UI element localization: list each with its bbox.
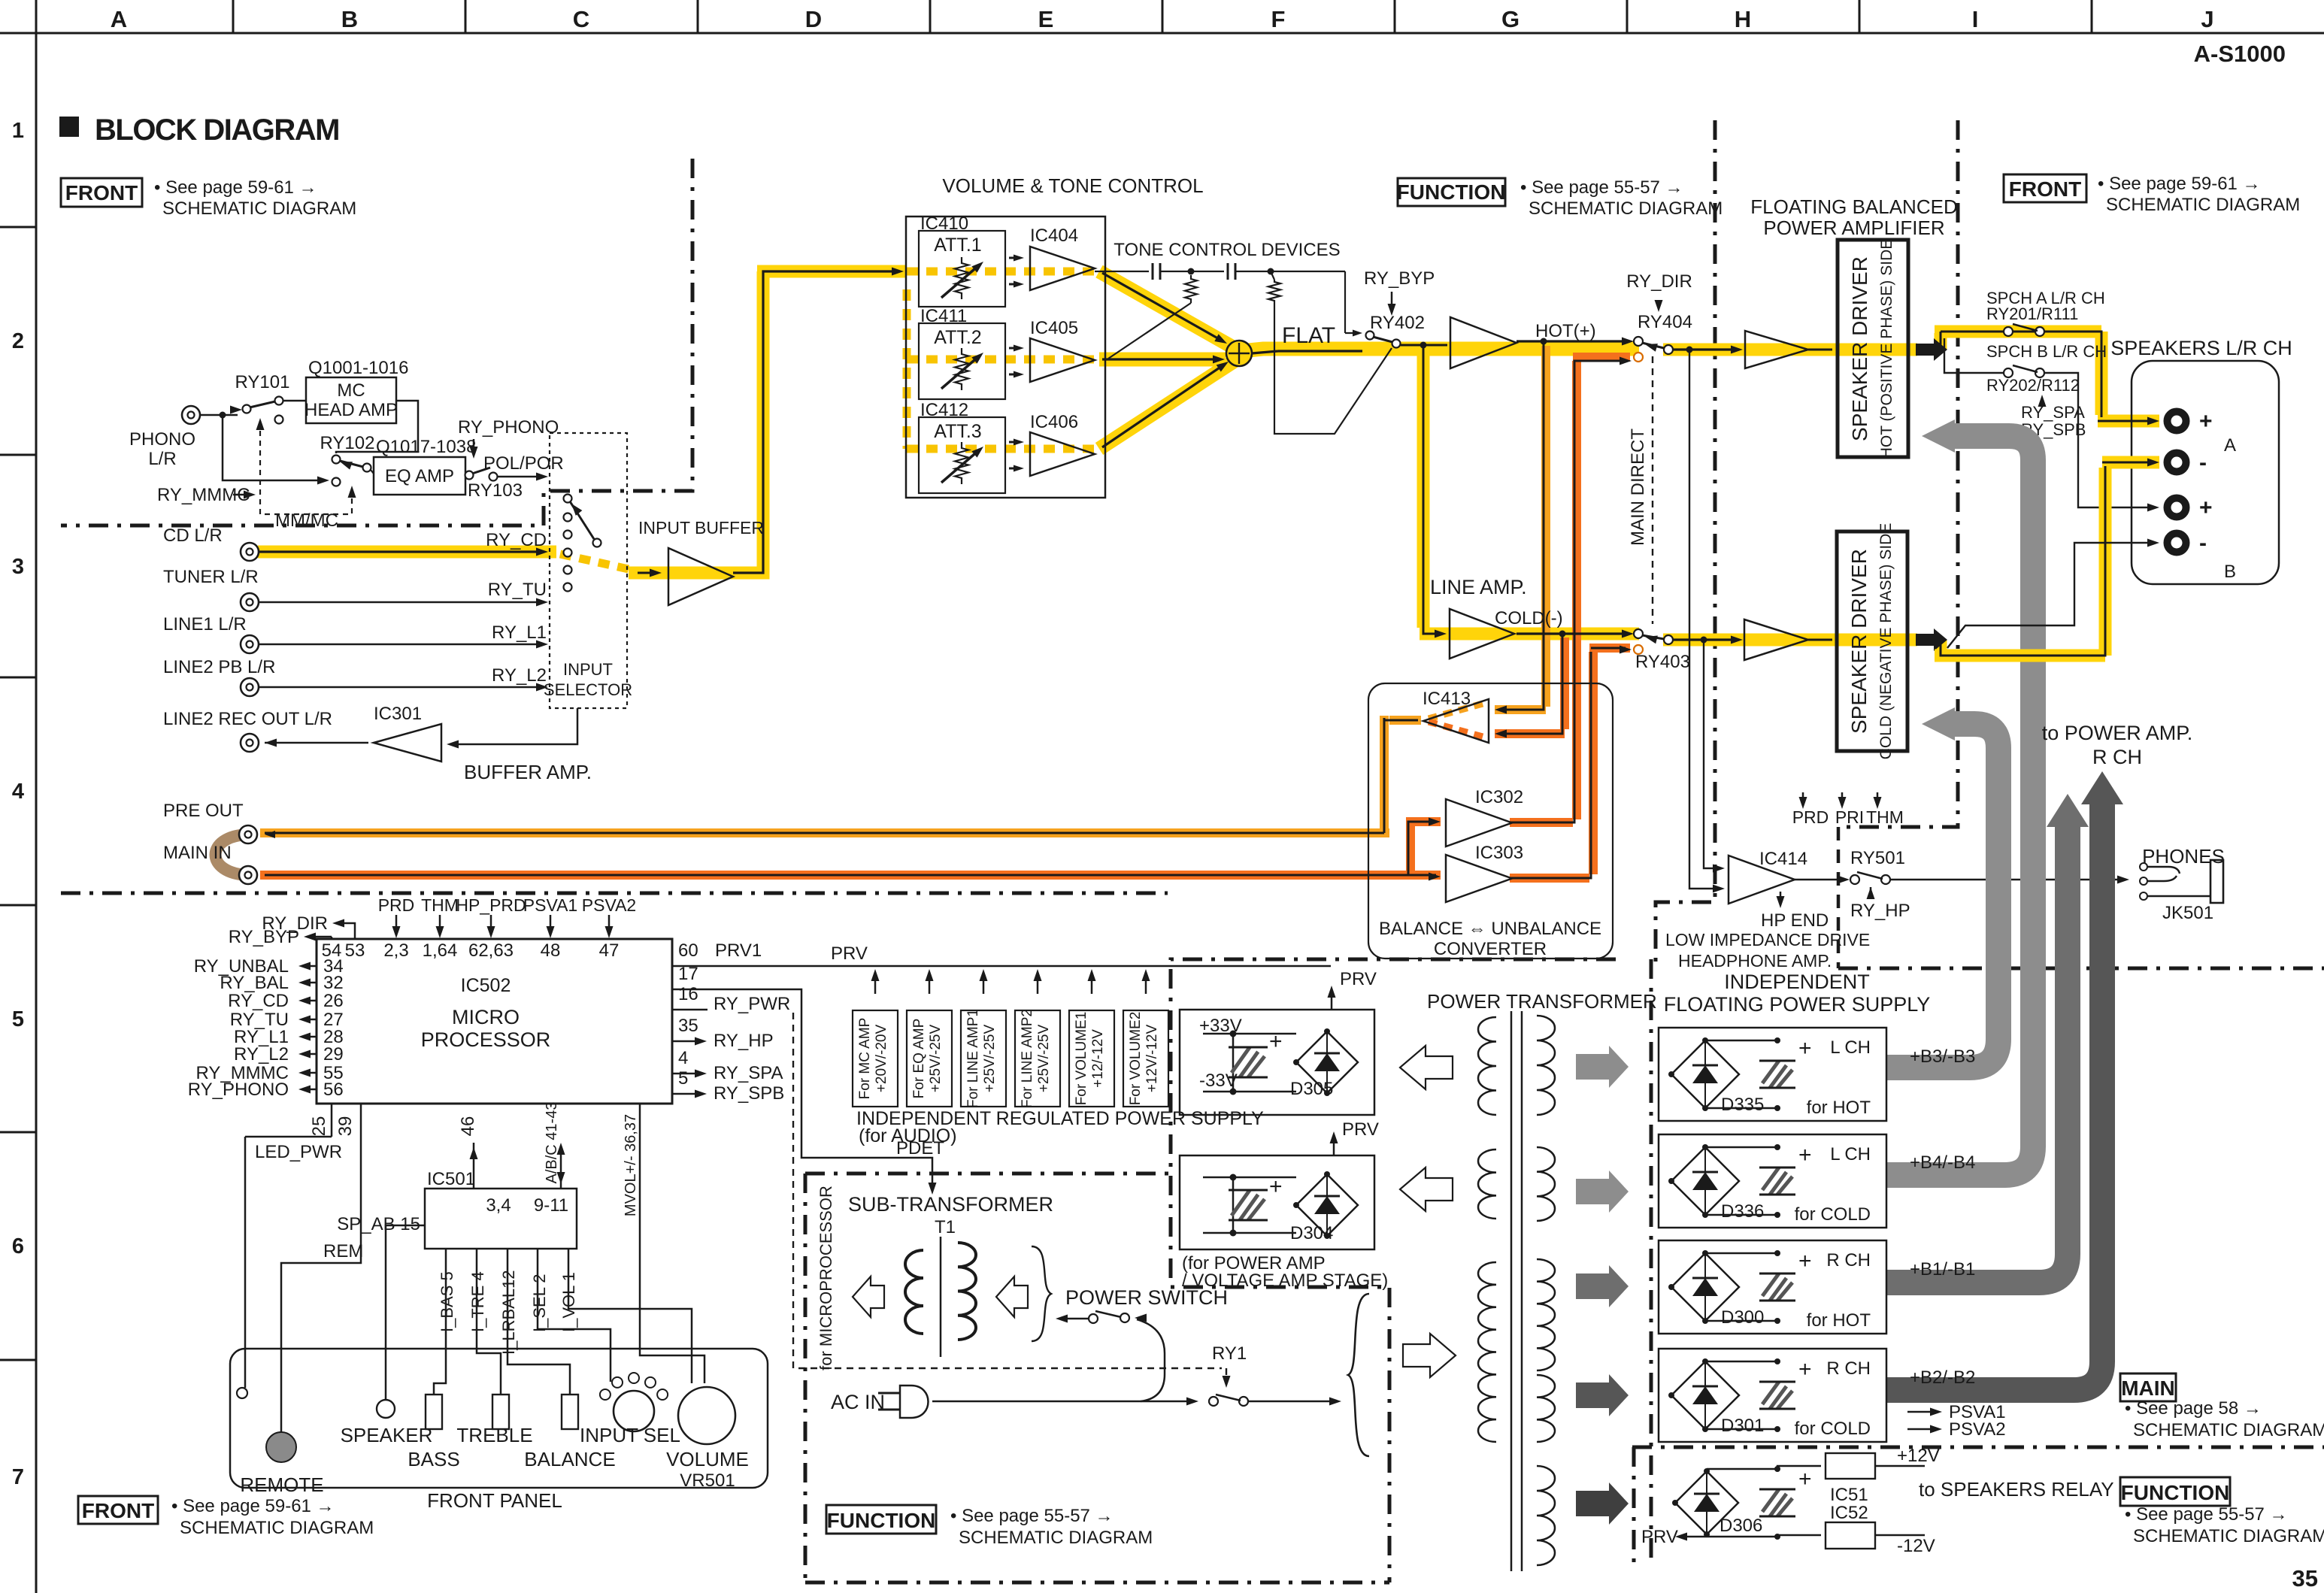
svg-text:for COLD: for COLD [1795,1419,1871,1439]
svg-text:• See page 55-57 →: • See page 55-57 → [2125,1504,2288,1525]
svg-text:-: - [2199,531,2207,556]
svg-text:1,64: 1,64 [423,940,458,961]
svg-text:For EQ AMP: For EQ AMP [911,1019,927,1099]
jack PHONO L/R [182,406,200,424]
svg-text:RY_BYP: RY_BYP [229,927,299,947]
svg-text:PRI: PRI [1835,807,1864,827]
svg-text:For VOLUME2: For VOLUME2 [1128,1012,1144,1106]
line A/B/C to IC501 double arrow [560,1147,562,1189]
svg-text:LINE2 REC OUT L/R: LINE2 REC OUT L/R [163,709,332,729]
svg-text:+: + [1798,1249,1812,1273]
svg-text:E: E [1038,6,1054,32]
svg-text:IC413: IC413 [1423,689,1471,709]
svg-text:47: 47 [599,940,620,961]
block INPUT SELECTOR dashed [550,433,627,708]
svg-text:VR501: VR501 [680,1470,735,1491]
treble slider [492,1395,509,1429]
black arrows into IC413 [1496,706,1507,713]
svg-text:SELECTOR: SELECTOR [544,680,632,699]
svg-text:THM: THM [421,895,459,915]
relay switch RY103 POL/POR [465,471,474,480]
svg-text:SPEAKERS L/R CH: SPEAKERS L/R CH [2110,337,2292,359]
svg-text:+: + [1798,1357,1812,1382]
svg-text:+20V/-20V: +20V/-20V [874,1025,889,1093]
svg-text:RY402: RY402 [1370,313,1425,333]
svg-text:PDET: PDET [896,1138,944,1158]
region boundary dash-dot bottom power supply [1171,959,1616,1582]
wire selector to IC301 to jack [451,708,577,744]
amp triangle input buffer [668,548,733,605]
svg-text:REM: REM [323,1241,363,1261]
svg-text:HEADPHONE AMP.: HEADPHONE AMP. [1678,951,1832,971]
svg-text:3: 3 [12,555,24,579]
black core spur to RY202 row [1944,338,2003,373]
black core COLD after driver [1517,632,1629,634]
svg-text:INPUT: INPUT [563,660,613,679]
sub transformer secondary coil [958,1243,976,1340]
svg-text:2,3: 2,3 [383,940,408,961]
svg-text:1: 1 [12,119,24,143]
svg-text:for MICROPROCESSOR: for MICROPROCESSOR [817,1186,835,1370]
svg-text:-: - [2199,450,2207,475]
svg-text:3,4: 3,4 [486,1195,511,1216]
svg-text:R CH: R CH [2092,746,2142,768]
svg-text:SCHEMATIC DIAGRAM: SCHEMATIC DIAGRAM [959,1528,1153,1548]
jack LINE2 PB L/R [241,678,259,696]
yellow signal path CD input to selector [258,546,556,559]
svg-text:• See page 59-61 →: • See page 59-61 → [171,1496,335,1516]
amp triangle line amp HOT [1450,317,1517,368]
MVOL line to volume [640,1104,704,1383]
svg-text:FUNCTION: FUNCTION [1397,180,1506,204]
black core to HOT line amp and COLD branch [1401,344,1447,347]
svg-text:CONVERTER: CONVERTER [1434,939,1547,959]
orange dotted inside IC413 [1429,704,1483,719]
svg-text:IC502: IC502 [461,975,511,996]
svg-text:SCHEMATIC DIAGRAM: SCHEMATIC DIAGRAM [2133,1526,2324,1546]
svg-text:for HOT: for HOT [1807,1098,1871,1118]
svg-text:FUNCTION: FUNCTION [2121,1481,2230,1504]
svg-text:SCHEMATIC DIAGRAM: SCHEMATIC DIAGRAM [2106,195,2300,215]
sub transformer core [940,1237,942,1357]
svg-text:I_TRE 4: I_TRE 4 [468,1271,487,1332]
amp triangle IC301 buffer amp [374,724,441,762]
svg-text:ATT.2: ATT.2 [934,327,981,348]
speakers panel box [2132,361,2279,584]
svg-text:RY_L2: RY_L2 [492,665,547,686]
svg-text:+: + [2199,495,2213,520]
svg-text:PRE OUT: PRE OUT [163,801,244,821]
volume knob VR501 [678,1387,735,1444]
svg-text:RY_TU: RY_TU [488,580,547,600]
svg-text:RY102: RY102 [320,433,375,453]
tap wires down to IC414 [1689,350,1720,889]
jack PRE OUT [239,825,257,843]
svg-text:Q1001-1016: Q1001-1016 [308,358,408,378]
svg-text:RY_PWR: RY_PWR [714,994,790,1014]
svg-text:+: + [1798,1036,1812,1061]
yellow path HOT line amp to speaker driver [1663,333,1941,350]
svg-text:6: 6 [12,1234,24,1258]
gray band +B1 up arrow [1886,825,2068,1283]
svg-text:FRONT: FRONT [2009,177,2081,201]
svg-text:A: A [111,6,127,32]
svg-text:PHONO: PHONO [129,429,195,450]
svg-text:PSVA2: PSVA2 [582,895,636,915]
svg-text:RY_BAL: RY_BAL [220,973,289,993]
regulator boxes for audio [853,1010,898,1107]
black core SPCH A to A+ terminal [2044,332,2155,421]
wire CD to selector with black core [259,550,543,553]
black cores on yellow diagonals into summing [1102,273,1222,341]
svg-text:RY_SPB: RY_SPB [714,1083,784,1104]
amp triangle line amp COLD [1450,609,1514,659]
jack LINE1 L/R [241,635,259,653]
svg-text:• See page 59-61 →: • See page 59-61 → [2098,174,2261,194]
svg-text:D336: D336 [1721,1201,1764,1222]
svg-text:RY201/R111: RY201/R111 [1986,304,2078,323]
svg-text:SPEAKER DRIVER: SPEAKER DRIVER [1848,256,1871,441]
svg-text:ATT.3: ATT.3 [934,421,981,442]
wire buffer out core [733,271,899,573]
svg-text:+: + [1798,1467,1812,1492]
power switch to ac line curve [1135,1314,1147,1322]
svg-text:9-11: 9-11 [534,1195,568,1216]
speaker button [377,1400,395,1418]
svg-text:MICRO: MICRO [452,1006,520,1028]
svg-text:HP_PRD: HP_PRD [456,895,526,915]
svg-text:+25V/-25V: +25V/-25V [1036,1025,1052,1093]
amp triangle IC413 [1423,699,1489,743]
svg-text:for COLD: for COLD [1795,1204,1871,1225]
region boundary dash-dot around rectifier column [1650,959,1653,1561]
svg-text:53: 53 [345,940,365,961]
svg-text:C: C [573,6,589,32]
svg-text:I_BAS 5: I_BAS 5 [438,1271,456,1332]
PRV label bottom [1680,1536,1707,1537]
svg-text:FLOATING POWER SUPPLY: FLOATING POWER SUPPLY [1664,993,1931,1016]
arrow out of COLD driver [1916,628,1947,651]
svg-text:+B2/-B2: +B2/-B2 [1910,1367,1975,1388]
svg-text:MC: MC [337,380,365,401]
svg-text:D301: D301 [1721,1416,1764,1436]
relay switch RY403 [1634,629,1643,638]
wire IC414 to RY501 [1795,879,1845,880]
block EQ AMP Q1017-1038 [374,457,465,495]
black cores IC302/IC303 outputs [1510,361,1626,822]
svg-text:LOW IMPEDANCE DRIVE: LOW IMPEDANCE DRIVE [1665,930,1870,949]
svg-text:H: H [1735,6,1751,32]
AC line to RY1 [932,1401,1192,1403]
svg-text:to POWER AMP.: to POWER AMP. [2042,722,2193,744]
label FRONT top-left [61,178,142,207]
svg-text:J: J [2201,6,2213,32]
label MAIN bottom-right [2120,1373,2176,1401]
svg-text:-12V: -12V [1897,1536,1935,1556]
svg-text:+B3/-B3: +B3/-B3 [1910,1046,1975,1067]
svg-text:4: 4 [12,780,24,804]
yellow dotted attenuator rows [907,268,1098,276]
secondary coils right [1537,1016,1555,1115]
block SPEAKER DRIVER HOT [1838,240,1908,457]
svg-text:62,63: 62,63 [468,940,514,961]
svg-text:BASS: BASS [408,1448,459,1470]
svg-text:LINE2 PB L/R: LINE2 PB L/R [163,657,275,677]
svg-text:29: 29 [323,1044,344,1065]
input sel knob [614,1391,654,1431]
amp triangle IC302 [1446,799,1512,846]
svg-text:RY_L2: RY_L2 [234,1044,289,1065]
svg-text:L/R: L/R [148,449,176,469]
svg-text:INPUT BUFFER: INPUT BUFFER [638,518,764,538]
svg-text:RY_PHONO: RY_PHONO [458,417,559,438]
yellow path summing to RY402 and line amps [1233,349,1639,352]
svg-text:RY403: RY403 [1635,652,1690,672]
svg-text:RY_BYP: RY_BYP [1364,268,1435,289]
amp triangle power amp COLD [1744,619,1808,660]
svg-text:IC52: IC52 [1830,1503,1868,1523]
black core pre-out line [265,832,1384,834]
black core HOT riser to SPCH A [1941,332,2098,350]
svg-text:ATT.1: ATT.1 [934,235,981,256]
brown u-turn pre-out main-in [216,834,249,875]
wire RY501 to phones jack [1890,879,2123,880]
yellow path COLD line amp to speaker driver [1663,640,1941,650]
tone feedback thin lines [1108,303,1191,359]
terminal B+ [2168,498,2186,517]
svg-text:for HOT: for HOT [1807,1310,1871,1331]
svg-text:5: 5 [12,1007,24,1031]
svg-text:IC51: IC51 [1830,1485,1868,1505]
svg-text:LINE1 L/R: LINE1 L/R [163,614,247,634]
svg-text:A: A [2224,435,2236,456]
svg-text:+25V/-25V: +25V/-25V [982,1025,998,1093]
svg-text:SCHEMATIC DIAGRAM: SCHEMATIC DIAGRAM [180,1518,374,1538]
wire RY101 to MC head amp [283,400,306,402]
svg-text:I: I [1972,6,1979,32]
svg-text:RY103: RY103 [468,480,523,501]
gray band +B3 to speaker relay u-turn [1886,724,1998,1068]
amp triangle IC303 [1446,855,1512,902]
svg-text:BALANCE: BALANCE [524,1448,615,1470]
svg-text:RY_SPA: RY_SPA [2021,403,2085,422]
black core into ATT1 [892,268,904,276]
wire RY202 to speaker B+ [2044,373,2155,507]
black core HOT after switch [1673,348,1738,350]
primary coils left [1478,1017,1496,1115]
black core spur to B- terminal [1947,543,2155,648]
region boundary dash-dot long horizontal row4-5 [61,892,1168,895]
balance slider [562,1395,578,1429]
svg-text:RY_L1: RY_L1 [492,622,547,643]
svg-text:BLOCK DIAGRAM: BLOCK DIAGRAM [95,114,339,147]
svg-text:L CH: L CH [1830,1037,1871,1058]
svg-text:BALANCE ⇔ UNBALANCE: BALANCE ⇔ UNBALANCE [1379,919,1601,939]
sub transformer primary coil [905,1250,923,1334]
svg-text:IC414: IC414 [1759,849,1807,869]
svg-text:IC501: IC501 [427,1169,475,1189]
bottom rectifier D306 +12V -12V [1675,1471,1738,1534]
front panel box [230,1349,768,1488]
svg-text:HEAD AMP: HEAD AMP [305,400,398,420]
wire line1 to selector [259,644,543,646]
svg-text:REMOTE: REMOTE [240,1473,323,1496]
jack TUNER L/R [241,593,259,611]
region boundary dash-dot C-D columns upper [61,159,692,525]
label FUNCTION top-center [1398,178,1505,206]
svg-text:+: + [1269,1174,1283,1199]
orange path COLD tap down to IC413 input [1495,638,1565,734]
svg-text:MAIN IN: MAIN IN [163,843,232,863]
svg-text:17: 17 [678,964,698,984]
remote sensor [266,1432,296,1462]
svg-text:• See page 59-61 →: • See page 59-61 → [154,177,317,198]
orange path HOT tap down to IC413 input [1495,346,1546,710]
amp triangle IC414 headphone amp [1729,856,1795,904]
svg-text:IC405: IC405 [1030,318,1078,338]
svg-text:IC303: IC303 [1475,843,1523,863]
svg-text:+12V: +12V [1897,1446,1940,1466]
title BLOCK DIAGRAM [59,117,79,137]
svg-text:• See page 55-57 →: • See page 55-57 → [950,1506,1114,1526]
svg-text:+B1/-B1: +B1/-B1 [1910,1259,1975,1280]
svg-text:POL/POR: POL/POR [483,453,564,474]
jack MAIN IN [239,866,257,884]
svg-text:35: 35 [2292,1565,2318,1591]
svg-text:25: 25 [309,1116,329,1137]
svg-text:RY101: RY101 [235,372,290,392]
svg-text:PRD: PRD [1792,807,1829,827]
svg-text:L CH: L CH [1830,1144,1871,1164]
svg-text:RY_DIR: RY_DIR [1626,271,1692,292]
svg-text:POWER SWITCH: POWER SWITCH [1065,1286,1228,1309]
svg-text:RY_HP: RY_HP [1850,901,1910,921]
white arrow to microprocessor supply [853,1277,884,1317]
svg-text:INPUT SEL: INPUT SEL [580,1424,680,1446]
PSVA1 PSVA2 arrows [1907,1411,1938,1413]
REM line [281,1104,361,1433]
arrow HP END [1780,892,1782,902]
svg-text:R CH: R CH [1826,1358,1871,1379]
svg-text:39: 39 [335,1116,356,1137]
svg-text:RY_PHONO: RY_PHONO [188,1080,289,1100]
svg-text:IC404: IC404 [1030,226,1078,246]
svg-text:D305: D305 [1290,1079,1333,1099]
wire line2 to selector [259,686,543,689]
region boundary dash-dot H column vertical [1656,120,1715,970]
power transformer core [1510,1011,1513,1571]
svg-text:4: 4 [678,1048,688,1068]
svg-text:HOT (POSITIVE PHASE) SIDE: HOT (POSITIVE PHASE) SIDE [1878,239,1895,459]
svg-text:FRONT PANEL: FRONT PANEL [427,1489,562,1512]
svg-text:SP_AB 15: SP_AB 15 [337,1214,420,1234]
black cores IC413 feeds [1499,344,1544,710]
black core main-in line [265,874,1408,877]
terminal A+ [2168,412,2186,431]
svg-text:IC302: IC302 [1475,787,1523,807]
svg-text:For VOLUME1: For VOLUME1 [1074,1012,1089,1106]
svg-text:D306: D306 [1720,1516,1762,1536]
gray band +B2 up arrow [1886,803,2102,1390]
white arrows to D305 D304 [1400,1046,1453,1089]
svg-text:+: + [1269,1029,1283,1054]
svg-text:F: F [1271,6,1286,32]
terminal A- [2168,453,2186,472]
svg-text:RY_CD: RY_CD [486,530,547,550]
svg-text:FUNCTION: FUNCTION [827,1509,936,1532]
svg-text:48: 48 [541,940,561,961]
svg-text:I_LRBAL12: I_LRBAL12 [499,1270,518,1355]
svg-text:CD L/R: CD L/R [163,525,223,546]
svg-text:46: 46 [458,1116,478,1137]
svg-text:LED_PWR: LED_PWR [255,1142,342,1162]
svg-text:THM: THM [1866,807,1904,827]
yellow dotted attenuator vertical link [903,289,911,449]
svg-text:PRV: PRV [1342,1119,1379,1140]
svg-text:16: 16 [678,984,698,1004]
svg-text:MM/MC: MM/MC [275,510,338,531]
SP_AB line to speaker button [386,1225,425,1400]
yellow diagonals into summing node [1099,271,1233,347]
label FRONT bottom-left [78,1496,158,1524]
svg-text:FLOATING BALANCED: FLOATING BALANCED [1750,195,1957,218]
svg-text:-33V: -33V [1199,1071,1238,1091]
svg-text:For MC AMP: For MC AMP [857,1018,873,1100]
svg-text:PROCESSOR: PROCESSOR [421,1028,551,1051]
svg-text:SCHEMATIC DIAGRAM: SCHEMATIC DIAGRAM [1529,198,1723,219]
svg-text:to SPEAKERS RELAY: to SPEAKERS RELAY [1919,1478,2114,1501]
black core COLD after switch [1673,638,1738,641]
svg-text:D: D [805,6,822,32]
svg-text:BUFFER AMP.: BUFFER AMP. [464,761,592,783]
svg-text:EQ AMP: EQ AMP [385,466,454,486]
LED_PWR line [245,1104,332,1388]
svg-text:RY404: RY404 [1638,312,1692,332]
svg-text:VOLUME & TONE CONTROL: VOLUME & TONE CONTROL [942,174,1203,197]
svg-text:SPCH B L/R CH: SPCH B L/R CH [1986,342,2107,361]
svg-text:RY_HP: RY_HP [714,1031,774,1051]
white arrow into power transformer primary [1403,1334,1456,1377]
svg-text:MAIN: MAIN [2121,1376,2175,1400]
IC51 regulator [1777,1466,1821,1469]
svg-text:PRV: PRV [831,943,868,964]
svg-text:56: 56 [323,1080,344,1100]
black core HOT line with tap dots [1517,340,1629,342]
svg-text:RY1: RY1 [1212,1343,1247,1364]
bass slider [426,1395,442,1429]
svg-text:D304: D304 [1290,1223,1333,1243]
power switch contacts [1060,1318,1088,1320]
svg-text:B: B [2224,562,2236,582]
svg-text:RY_CD: RY_CD [228,991,289,1011]
dashed RY_PWR control to RY1 [793,1013,1222,1368]
svg-text:+12/-12V: +12/-12V [1090,1029,1106,1088]
wire tuner to selector [259,601,543,604]
svg-text:60: 60 [678,940,698,961]
svg-text:R CH: R CH [1826,1250,1871,1270]
svg-text:INDEPENDENT: INDEPENDENT [1724,971,1870,993]
yellow path selector to input buffer and up to tone control [629,271,906,573]
orange path IC302 output up to RY404 break contact [1510,357,1630,822]
svg-text:I_SEL 2: I_SEL 2 [530,1274,549,1332]
wire into HOT driver box [1808,349,1832,351]
svg-text:T1: T1 [935,1217,956,1237]
svg-text:AC IN: AC IN [831,1391,885,1413]
svg-text:FRONT: FRONT [65,181,138,204]
block IC502 MICRO PROCESSOR [317,939,672,1104]
black core COLD to A- terminal [1941,462,2155,656]
svg-text:SCHEMATIC DIAGRAM: SCHEMATIC DIAGRAM [2133,1420,2324,1440]
